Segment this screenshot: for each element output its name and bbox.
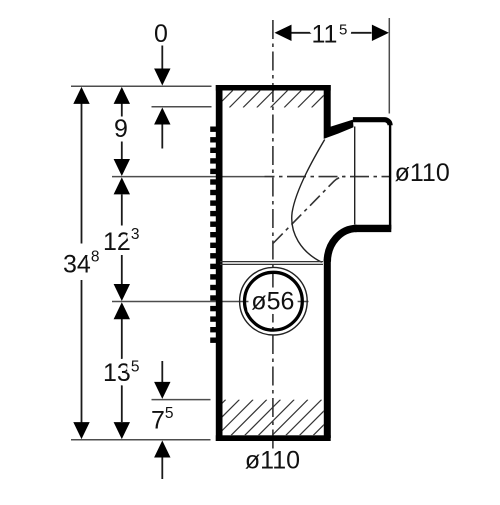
bottom reference line <box>71 439 211 441</box>
side outlet axis extension line <box>112 301 249 303</box>
right wall lower <box>324 259 331 438</box>
dimension 7.5 <box>161 361 163 382</box>
svg-text:9: 9 <box>114 115 128 143</box>
dimension 12.3 <box>121 195 123 285</box>
branch axis extension line <box>112 176 265 178</box>
branch 45-degree axis <box>273 177 345 244</box>
branch sweep inner curve <box>292 140 325 263</box>
ribbed surface teeth <box>210 127 216 132</box>
socket depth reference line <box>152 106 212 108</box>
svg-text:ø56: ø56 <box>251 287 294 315</box>
svg-text:ø110: ø110 <box>395 159 450 187</box>
socket bottom edge <box>355 225 391 232</box>
socket right edge <box>389 124 391 229</box>
side outlet bore circle <box>245 272 303 330</box>
top socket hatching <box>202 91 342 108</box>
branch outer curve <box>327 228 357 261</box>
socket left edge <box>354 127 356 225</box>
branch outlet axis dash-dot <box>265 176 392 178</box>
dimension 13.5 <box>121 319 123 422</box>
svg-text:0: 0 <box>154 20 168 48</box>
top reference line level 0 <box>71 85 212 87</box>
dimension 9 <box>121 104 123 160</box>
socket top edge <box>353 120 390 126</box>
right wall upper with taper to socket <box>324 85 354 139</box>
bottom socket hatching <box>190 400 363 436</box>
weld joint double line <box>220 261 323 263</box>
pipe bottom edge <box>216 435 331 441</box>
datum 0 arrow <box>161 46 163 70</box>
insertion depth line 7.5 <box>152 399 211 401</box>
main pipe left wall <box>216 85 223 441</box>
dimension 11.5 <box>290 32 372 34</box>
pipe top edge <box>216 85 331 91</box>
side outlet outer circle <box>240 267 308 335</box>
vertical centerline of main pipe <box>272 20 274 449</box>
arrow to socket depth line <box>161 125 163 149</box>
svg-text:ø110: ø110 <box>245 447 300 475</box>
dimension 34.8 line <box>81 103 83 423</box>
extension line right of socket <box>388 18 390 114</box>
